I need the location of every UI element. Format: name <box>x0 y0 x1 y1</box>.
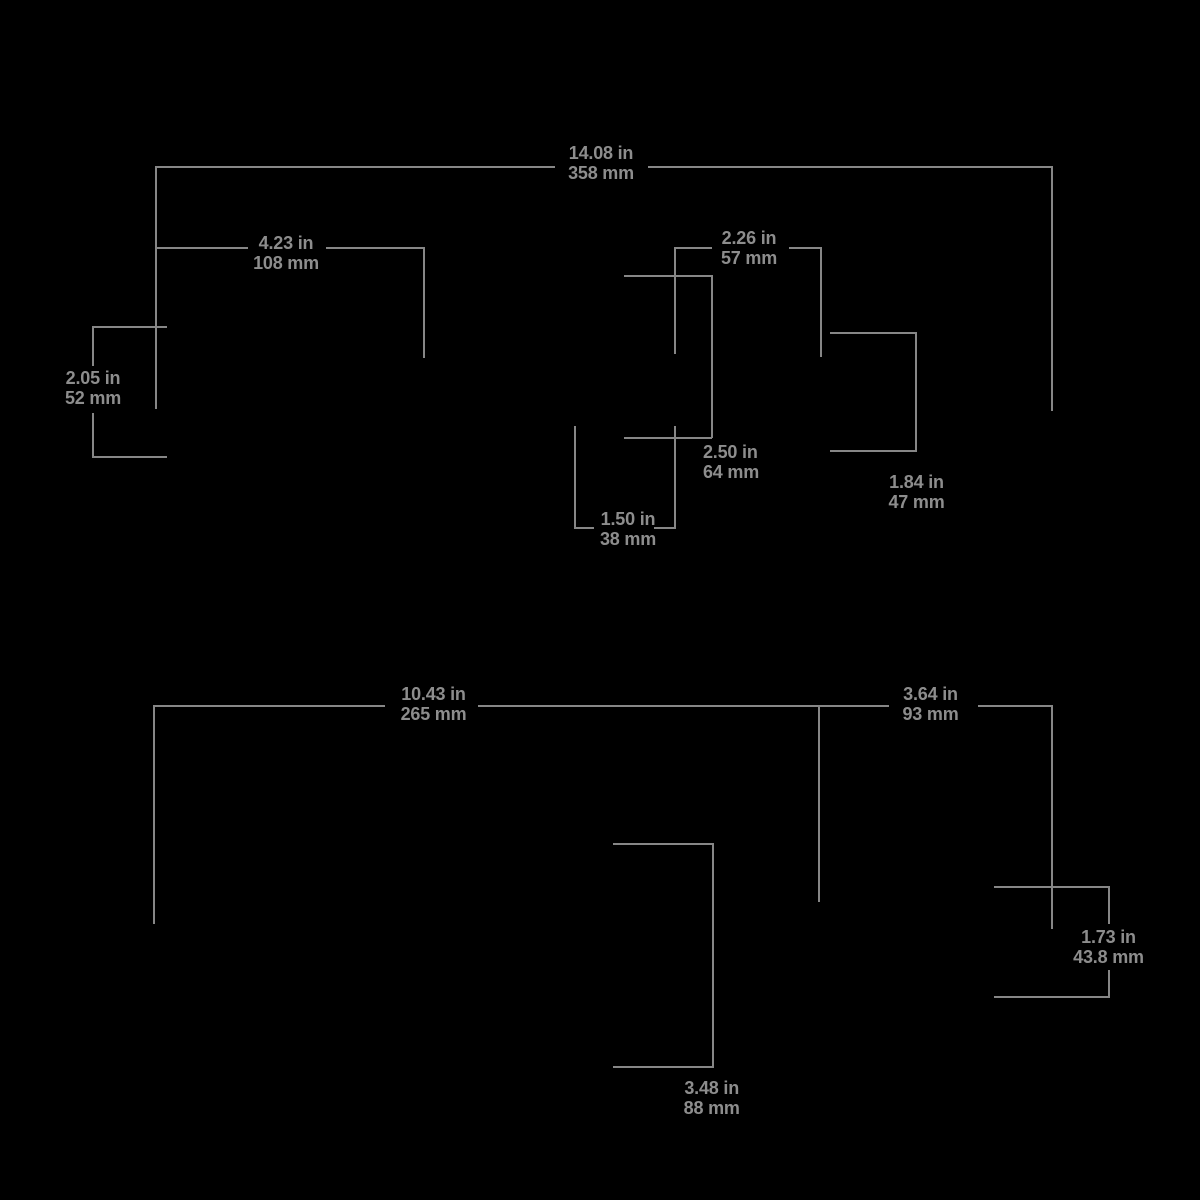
label 3.48 in / 88 mm <box>684 1078 740 1119</box>
wire: 2.26 horizontal right segment <box>789 247 821 249</box>
wire: 2.26 left extension vertical <box>674 247 676 354</box>
label 1.50 in / 38 mm <box>600 509 656 550</box>
wire: 10.43 horizontal middle segment <box>478 705 889 707</box>
label 1.73 in / 43.8 mm <box>1073 927 1144 968</box>
wire: 1.84 right vertical <box>915 332 917 451</box>
wire: 1.73 right vertical lower part <box>1108 970 1110 998</box>
wire: 3.64 right extension vertical <box>1051 705 1053 929</box>
wire: 10.43 horizontal left segment <box>154 705 386 707</box>
wire: 1.50 bottom horizontal left segment <box>574 527 594 529</box>
label 3.64 in / 93 mm <box>902 684 958 725</box>
wire: 2.26 right extension vertical <box>820 247 822 357</box>
label 10.43 in / 265 mm <box>401 684 467 725</box>
wire: 14.08 right extension vertical <box>1051 166 1053 411</box>
wire: 2.05 vertical upper part <box>92 326 94 366</box>
wire: 2.50 top tick <box>624 275 712 277</box>
label 4.23 in / 108 mm <box>253 233 319 274</box>
wire: 2.50 vertical <box>711 275 713 438</box>
wire: 2.05 vertical lower part <box>92 413 94 458</box>
wire: 1.73 top horizontal <box>994 886 1110 888</box>
wire: 2.26 horizontal left segment <box>674 247 712 249</box>
wire: 3.48 right vertical <box>712 843 714 1068</box>
wire: 1.73 bottom horizontal <box>994 996 1110 998</box>
wire: 14.08 horizontal right segment <box>648 166 1052 168</box>
wire: 10.43/3.64 middle extension vertical <box>818 705 820 903</box>
wire: 2.05 bottom horizontal <box>93 456 167 458</box>
label 1.84 in / 47 mm <box>888 472 944 513</box>
wire: 2.50 bottom tick <box>624 437 712 439</box>
wire: 1.84 top horizontal <box>830 332 917 334</box>
wire: 1.50 left vertical <box>574 426 576 528</box>
wire: 2.05 top horizontal <box>93 326 167 328</box>
wire: 14.08 left extension vertical <box>155 166 157 409</box>
wire: 4.23 horizontal left segment <box>155 247 248 249</box>
wire: 4.23 right extension vertical <box>423 247 425 358</box>
wire: 1.50 bottom horizontal right segment <box>654 527 676 529</box>
wire: 4.23 horizontal right segment <box>326 247 424 249</box>
wire: 3.48 top horizontal <box>613 843 714 845</box>
wire: 1.84 bottom horizontal <box>830 450 917 452</box>
wire: 3.48 bottom horizontal <box>613 1066 714 1068</box>
label 14.08 in / 358 mm <box>568 143 634 184</box>
wire: 10.43 left extension vertical <box>153 705 155 925</box>
label 2.05 in / 52 mm <box>65 368 121 409</box>
wire: 1.73 right vertical upper part <box>1108 886 1110 924</box>
wire: 1.50 right vertical <box>674 426 676 528</box>
wire: 3.64 horizontal right segment <box>978 705 1052 707</box>
label 2.26 in / 57 mm <box>721 228 777 269</box>
wire: 14.08 horizontal left segment <box>155 166 555 168</box>
label 2.50 in / 64 mm <box>703 442 759 483</box>
